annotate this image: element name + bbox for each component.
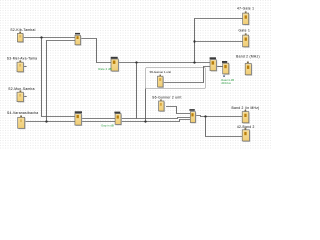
block6 2-input [75,111,83,126]
block C standalone [236,54,260,75]
block B2 source S3 [7,57,38,73]
block R1 band2 [231,106,259,124]
wire block6 out to T2 in2 [81,118,190,119]
svg-text:42-Band 2: 42-Band 2 [237,125,255,129]
block M rate [98,57,119,72]
wire B2 stub [23,66,26,68]
wire from J3 to gate G2 [195,41,243,43]
node J1 [40,36,42,38]
wire B1 out to block5 in1 [23,37,75,39]
svg-text:S2-Mun-Samba: S2-Mun-Samba [8,87,34,91]
wire block A out to block B [216,66,222,68]
svg-text:S4-Varanasibacha: S4-Varanasibacha [7,111,38,115]
block A 2-input [210,57,218,71]
svg-text:S5-Gunner 1 unit: S5-Gunner 1 unit [150,70,172,74]
svg-text:Band 2 (in MHz): Band 2 (in MHz) [231,106,259,110]
svg-text:47-Gate 1: 47-Gate 1 [237,7,254,11]
block7 gap [101,112,122,128]
node J3 [193,40,195,42]
node J4 [193,61,195,63]
svg-text:db/10us: db/10us [221,81,231,85]
wire V5 from J4 up to gate G1 [195,19,243,63]
node J6 [45,120,47,122]
block G2 gate [239,29,251,48]
wire V2 from J6 up to block5 in2 [47,41,76,122]
svg-text:Band 2 (MHz): Band 2 (MHz) [236,54,260,58]
block5 2-input [75,33,81,46]
svg-text:S2-Kib-Tambal: S2-Kib-Tambal [10,28,35,32]
svg-text:S3-Mel-Ava-Tama: S3-Mel-Ava-Tama [7,57,38,61]
wire bottom bus from B4 to T2 in3 [25,120,191,122]
block R2 band2b [237,125,255,142]
wire S6 sub out to T2 in1 [166,107,190,114]
block S5 sub [150,70,172,88]
wire V3 from J2 down joining T2 in2 line [136,63,138,119]
node J5 [204,115,206,117]
block G1 gate [237,7,254,26]
wire S5 sub out up to block A in2 [163,67,210,83]
block B display [221,61,234,85]
wire V1 from J1 down to block6 in1 [42,38,75,117]
svg-text:S6-Gunner 2 unit: S6-Gunner 2 unit [152,95,182,99]
block S6 sub [152,95,182,112]
svg-text:Gap in dB: Gap in dB [101,123,114,127]
wire B3 stub [23,96,26,98]
svg-text:Rate 4 dB: Rate 4 dB [98,67,111,71]
node J7 [144,120,146,122]
wire main bus block M out to block A in1 [118,62,210,64]
wire V4 from J5 down to R2 [206,117,243,137]
node J2 [135,61,137,63]
wire from J7 up to S6 input [145,89,147,122]
wire T2 out to R1 [195,116,242,117]
block B1 source S2 [10,28,35,43]
wire block5 out to block M [81,39,112,63]
area box S5 Gunner 1 unit [146,68,206,89]
block B4 source S4 [7,111,38,129]
block T2 3-input [189,109,196,123]
svg-text:Gate 1: Gate 1 [239,29,251,33]
block B3 source S2b [8,87,34,103]
